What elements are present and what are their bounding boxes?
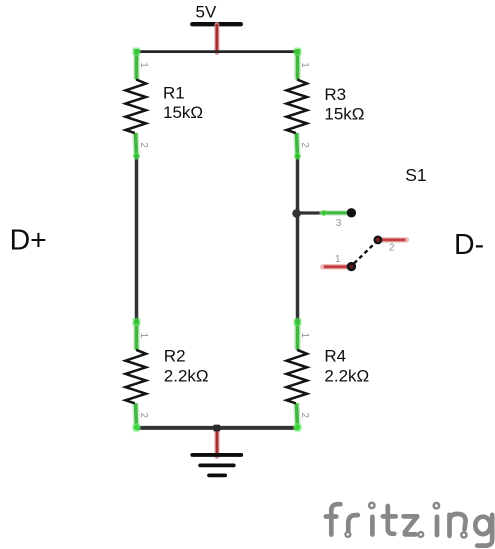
svg-text:D-: D-: [454, 229, 484, 261]
node bottom-left corner: [132, 423, 141, 432]
wire top rail: [137, 50, 298, 53]
svg-text:R1: R1: [163, 84, 185, 103]
logo letter f: [331, 504, 340, 534]
svg-text:R4: R4: [324, 346, 346, 365]
pin 2: [375, 237, 382, 244]
logo letter i (2nd): [434, 503, 439, 508]
power symbol 5V: [192, 3, 241, 53]
logo letter n: [447, 515, 452, 536]
logo letter i (1st): [369, 503, 374, 508]
logo letter t: [388, 506, 395, 534]
logo letter r: [348, 515, 358, 531]
svg-text:1: 1: [335, 254, 341, 265]
svg-text:S1: S1: [405, 165, 426, 185]
svg-text:2: 2: [389, 242, 395, 253]
svg-text:15kΩ: 15kΩ: [324, 104, 364, 123]
resistor R4: [287, 318, 370, 430]
svg-text:15kΩ: 15kΩ: [163, 103, 203, 122]
switch lever (dashed): [354, 243, 376, 264]
resistor R1: [126, 47, 204, 159]
svg-text:R2: R2: [164, 346, 186, 365]
svg-text:2.2kΩ: 2.2kΩ: [324, 367, 369, 386]
svg-text:2.2kΩ: 2.2kΩ: [164, 367, 209, 386]
pin 3 lead: [322, 210, 348, 215]
svg-text:3: 3: [336, 218, 342, 229]
resistor R3: [287, 47, 365, 159]
switch S1: [321, 165, 427, 271]
svg-text:5V: 5V: [196, 3, 217, 22]
logo letter z: [404, 516, 418, 534]
logo letter g: [475, 517, 490, 534]
fritzing watermark: [326, 503, 492, 546]
wire left rail (R1 to R2): [135, 156, 139, 323]
node junction on right rail: [292, 209, 301, 218]
wire right rail (R3 to R4): [296, 156, 300, 323]
resistor R2: [126, 318, 209, 430]
node bottom-right corner: [293, 423, 302, 432]
wire junction to switch: [297, 211, 321, 214]
pin 1: [347, 262, 356, 271]
ground: [192, 425, 241, 476]
pin 3: [347, 208, 356, 217]
svg-text:D+: D+: [10, 225, 47, 257]
svg-text:R3: R3: [324, 85, 346, 104]
wire bottom rail: [137, 426, 298, 430]
pin 2 lead: [380, 237, 407, 242]
pin 1 lead: [323, 264, 349, 269]
